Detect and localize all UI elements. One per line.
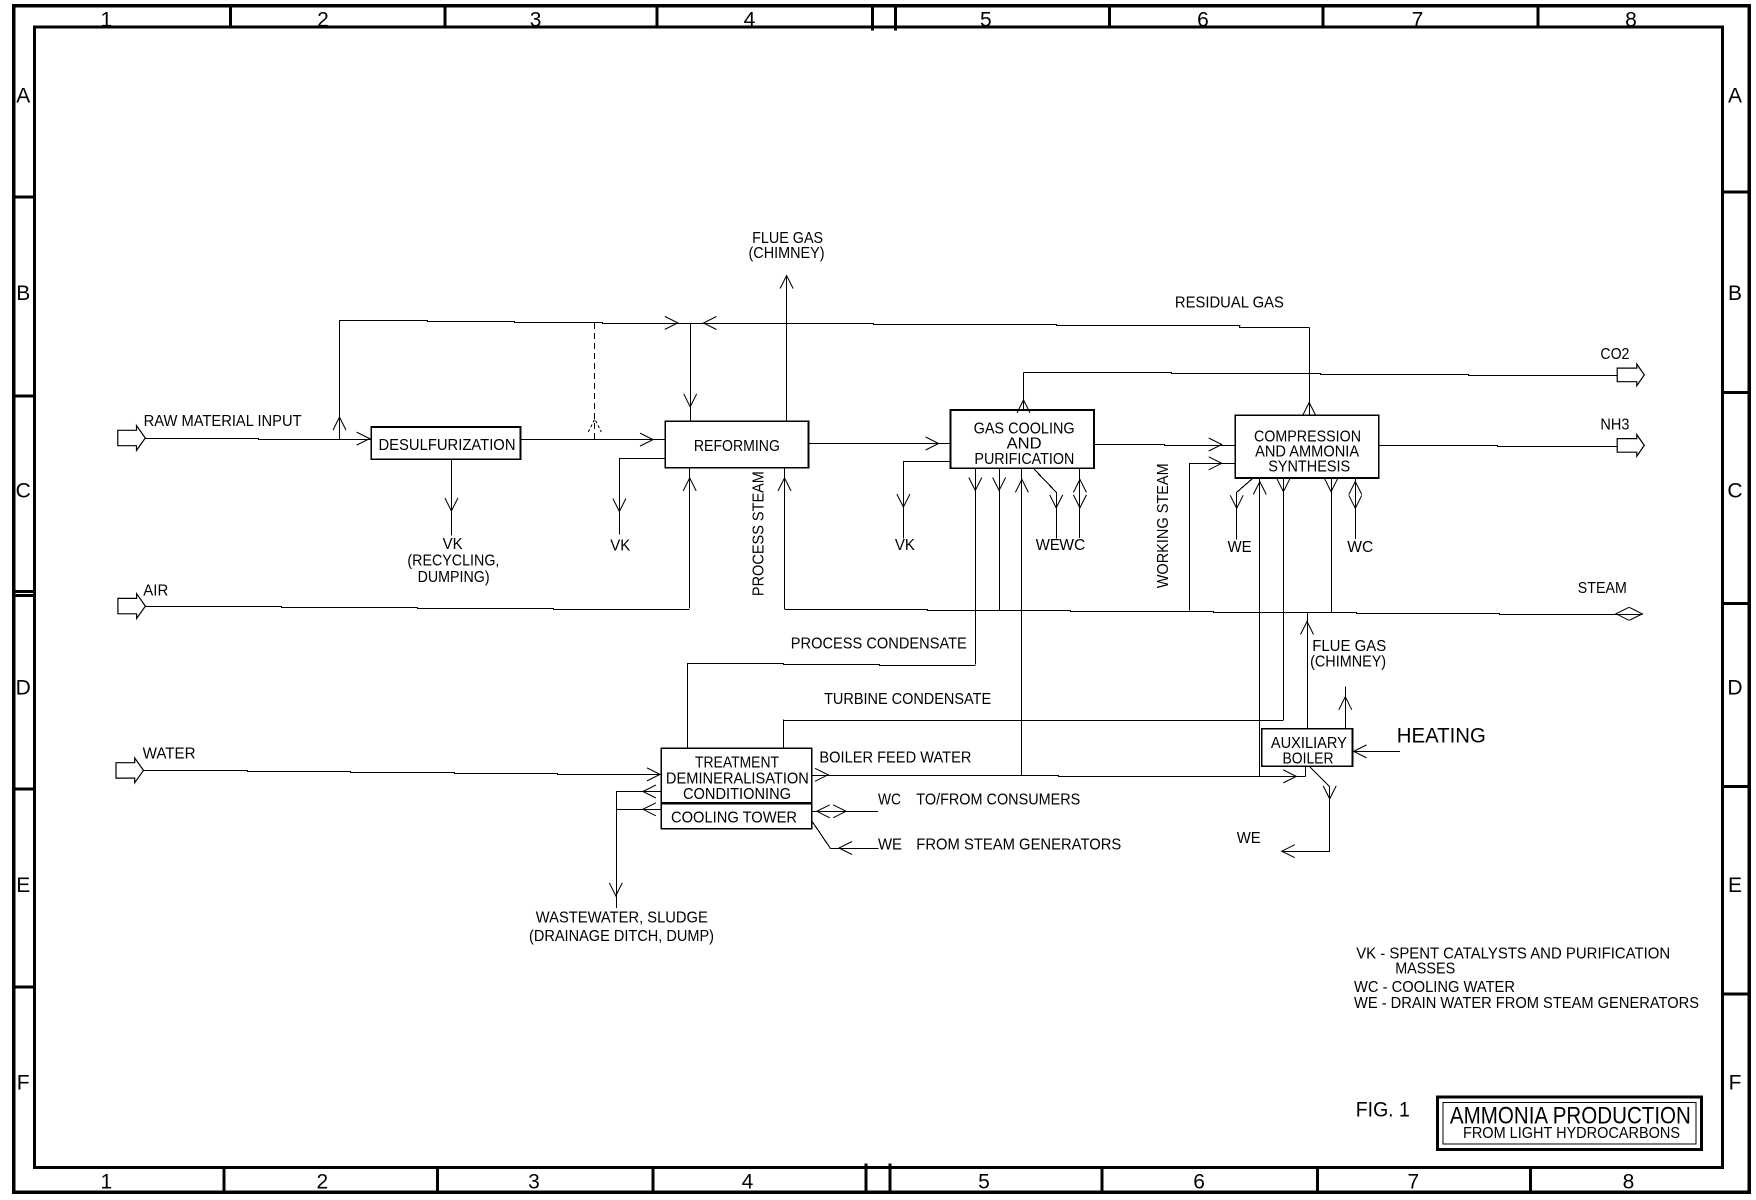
svg-text:WE: WE <box>1228 539 1252 556</box>
svg-text:2: 2 <box>316 1171 328 1194</box>
svg-text:(DRAINAGE DITCH, DUMP): (DRAINAGE DITCH, DUMP) <box>529 928 714 945</box>
svg-text:DESULFURIZATION: DESULFURIZATION <box>379 437 516 454</box>
svg-text:BOILER: BOILER <box>1283 751 1334 768</box>
svg-text:HEATING: HEATING <box>1397 724 1486 747</box>
svg-text:A: A <box>1728 84 1742 107</box>
svg-text:B: B <box>1728 282 1742 305</box>
svg-text:PROCESS STEAM: PROCESS STEAM <box>751 471 768 596</box>
svg-text:C: C <box>1727 479 1742 502</box>
svg-text:WC: WC <box>1059 537 1085 554</box>
svg-text:VK: VK <box>443 536 463 553</box>
svg-text:CONDITIONING: CONDITIONING <box>683 786 791 803</box>
svg-text:TO/FROM CONSUMERS: TO/FROM CONSUMERS <box>916 791 1080 808</box>
svg-text:AIR: AIR <box>143 582 168 599</box>
svg-text:F: F <box>1729 1071 1742 1094</box>
svg-text:8: 8 <box>1625 8 1637 31</box>
svg-text:(RECYCLING,: (RECYCLING, <box>407 553 499 570</box>
svg-text:WC: WC <box>878 791 901 808</box>
svg-text:AUXILIARY: AUXILIARY <box>1271 735 1347 752</box>
svg-text:WE - DRAIN WATER FROM STEAM GE: WE - DRAIN WATER FROM STEAM GENERATORS <box>1354 995 1699 1012</box>
svg-text:D: D <box>16 676 31 699</box>
svg-text:DUMPING): DUMPING) <box>418 569 490 586</box>
svg-text:TREATMENT: TREATMENT <box>695 755 779 772</box>
svg-text:RAW MATERIAL INPUT: RAW MATERIAL INPUT <box>144 413 302 430</box>
svg-text:WASTEWATER, SLUDGE: WASTEWATER, SLUDGE <box>536 909 708 926</box>
svg-text:E: E <box>16 874 30 897</box>
svg-text:A: A <box>16 84 30 107</box>
svg-text:REFORMING: REFORMING <box>694 438 780 455</box>
svg-text:5: 5 <box>978 1171 990 1194</box>
svg-text:5: 5 <box>980 8 992 31</box>
svg-text:(CHIMNEY): (CHIMNEY) <box>1310 653 1386 670</box>
svg-text:BOILER FEED WATER: BOILER FEED WATER <box>819 749 971 766</box>
svg-text:B: B <box>16 282 30 305</box>
svg-text:2: 2 <box>317 8 329 31</box>
svg-text:VK: VK <box>895 537 915 554</box>
svg-text:1: 1 <box>100 8 112 31</box>
svg-text:VK: VK <box>610 538 630 555</box>
svg-text:WE: WE <box>878 836 902 853</box>
svg-text:6: 6 <box>1193 1171 1205 1194</box>
svg-text:(CHIMNEY): (CHIMNEY) <box>749 245 825 262</box>
svg-text:PROCESS CONDENSATE: PROCESS CONDENSATE <box>791 636 967 653</box>
svg-text:STEAM: STEAM <box>1578 580 1627 597</box>
svg-text:3: 3 <box>528 1171 540 1194</box>
svg-text:FROM LIGHT HYDROCARBONS: FROM LIGHT HYDROCARBONS <box>1463 1125 1680 1142</box>
svg-text:WATER: WATER <box>143 745 196 762</box>
svg-text:4: 4 <box>742 1171 754 1194</box>
svg-text:8: 8 <box>1623 1171 1635 1194</box>
svg-text:WC - COOLING WATER: WC - COOLING WATER <box>1354 979 1515 996</box>
svg-text:WE: WE <box>1036 537 1060 554</box>
svg-text:1: 1 <box>100 1171 112 1194</box>
svg-text:WE: WE <box>1237 830 1261 847</box>
svg-text:CO2: CO2 <box>1600 346 1629 363</box>
svg-text:4: 4 <box>744 8 756 31</box>
svg-text:C: C <box>16 479 31 502</box>
svg-text:7: 7 <box>1412 8 1424 31</box>
svg-text:PURIFICATION: PURIFICATION <box>974 451 1074 468</box>
svg-text:COOLING TOWER: COOLING TOWER <box>671 810 797 827</box>
svg-text:E: E <box>1728 874 1742 897</box>
svg-text:F: F <box>17 1071 30 1094</box>
svg-text:FIG. 1: FIG. 1 <box>1356 1099 1410 1122</box>
svg-text:WC: WC <box>1347 539 1373 556</box>
svg-text:WORKING STEAM: WORKING STEAM <box>1155 463 1172 588</box>
svg-text:SYNTHESIS: SYNTHESIS <box>1268 458 1350 475</box>
svg-text:MASSES: MASSES <box>1395 961 1455 978</box>
svg-text:3: 3 <box>530 8 542 31</box>
svg-text:FROM STEAM GENERATORS: FROM STEAM GENERATORS <box>916 836 1121 853</box>
svg-text:D: D <box>1727 676 1742 699</box>
svg-text:7: 7 <box>1407 1171 1419 1194</box>
svg-text:TURBINE CONDENSATE: TURBINE CONDENSATE <box>824 691 991 708</box>
svg-text:6: 6 <box>1197 8 1209 31</box>
svg-text:RESIDUAL GAS: RESIDUAL GAS <box>1175 295 1284 312</box>
svg-text:NH3: NH3 <box>1600 416 1629 433</box>
